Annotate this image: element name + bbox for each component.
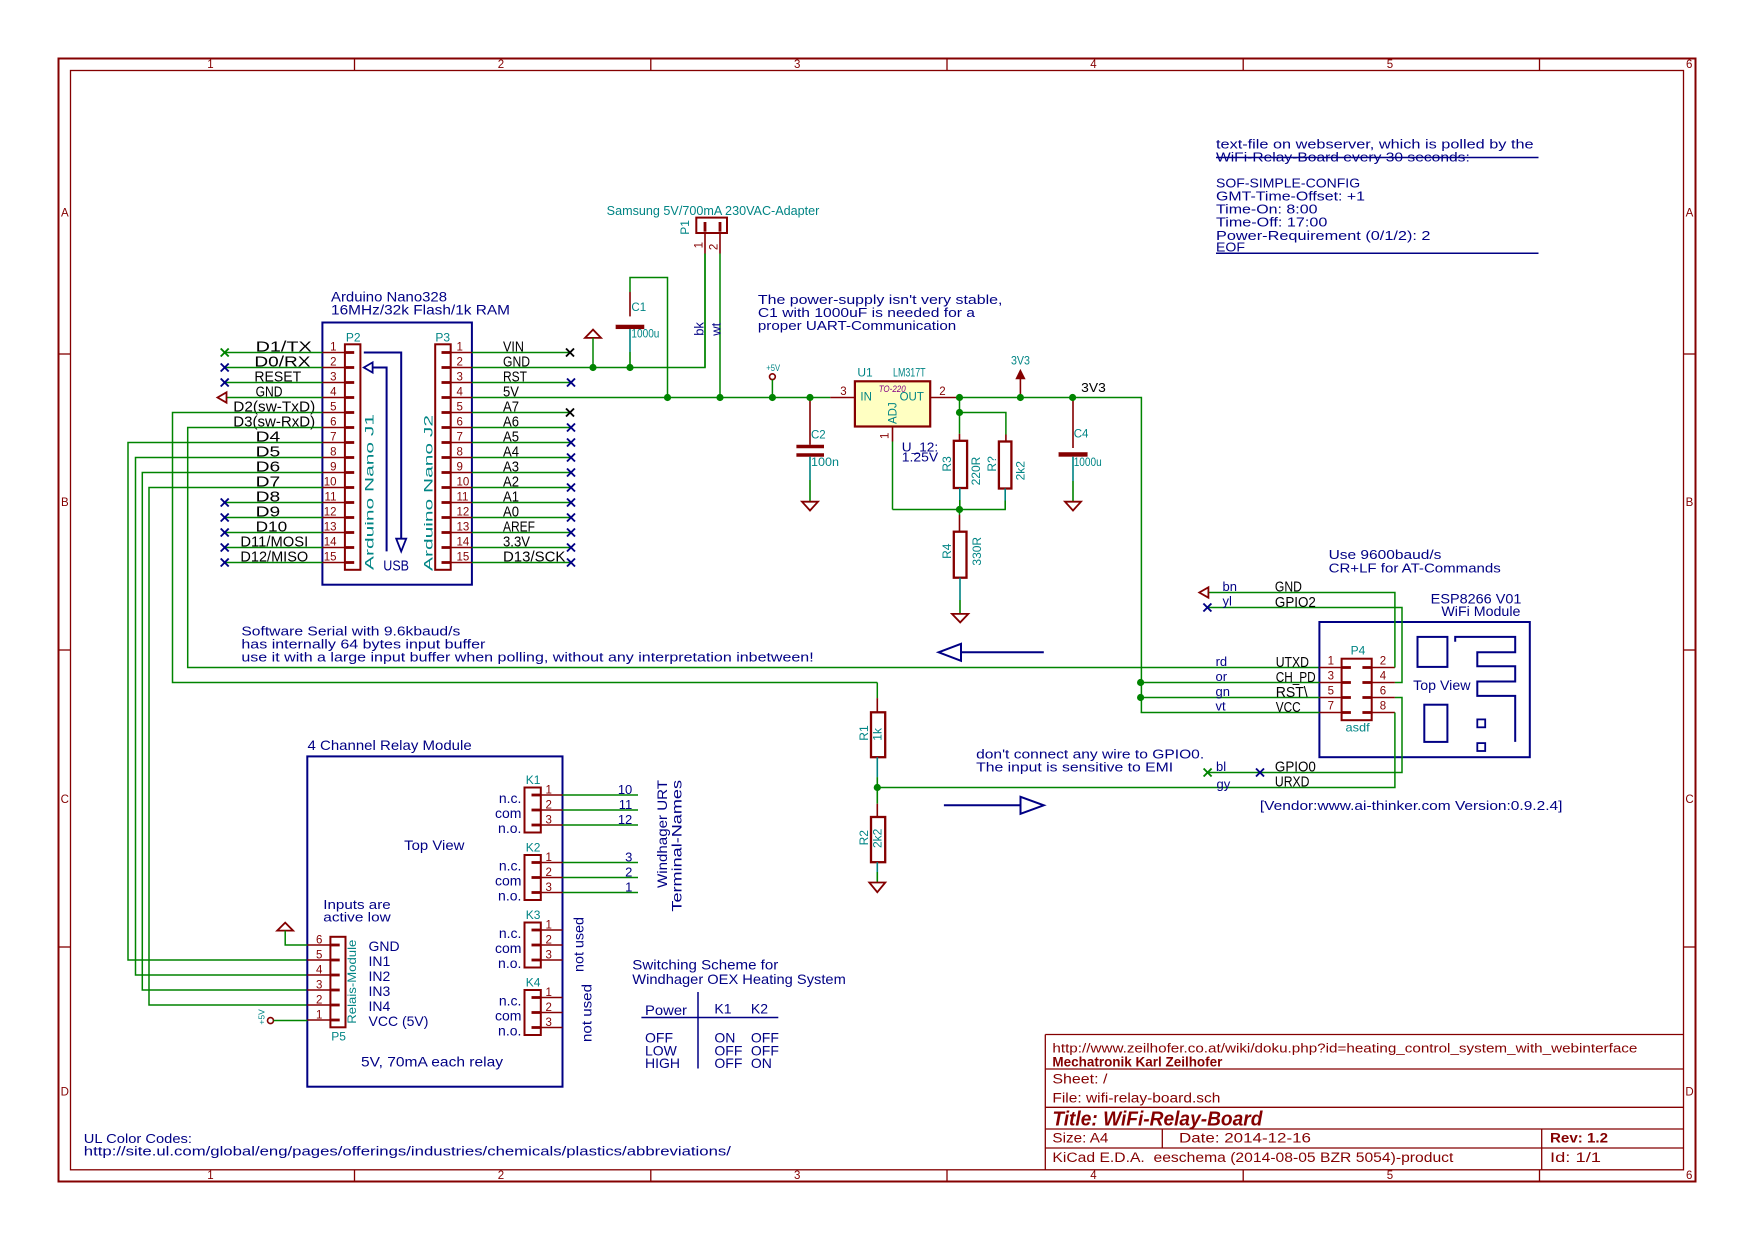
svg-text:LM317T: LM317T: [893, 366, 926, 380]
svg-text:bk: bk: [692, 322, 707, 336]
svg-text:ON: ON: [751, 1055, 772, 1071]
svg-text:4: 4: [1380, 671, 1387, 683]
svg-text:2: 2: [625, 865, 632, 880]
svg-text:7: 7: [1328, 701, 1334, 713]
svg-text:IN3: IN3: [369, 983, 391, 999]
svg-text:Power: Power: [645, 1002, 687, 1018]
svg-text:Date: 2014-12-16: Date: 2014-12-16: [1179, 1131, 1311, 1146]
svg-text:9: 9: [457, 462, 463, 474]
svg-text:asdf: asdf: [1346, 721, 1371, 735]
svg-text:not used: not used: [580, 984, 595, 1042]
svg-text:Title: WiFi-Relay-Board: Title: WiFi-Relay-Board: [1052, 1109, 1263, 1131]
svg-text:1k: 1k: [871, 727, 885, 741]
svg-text:com: com: [495, 940, 521, 956]
svg-text:15: 15: [324, 552, 337, 564]
svg-text:1: 1: [457, 342, 463, 354]
svg-text:5V, 70mA each relay: 5V, 70mA each relay: [361, 1054, 503, 1070]
svg-text:5: 5: [1387, 59, 1393, 71]
svg-text:K1: K1: [526, 773, 541, 787]
svg-text:5: 5: [1328, 686, 1334, 698]
svg-text:P5: P5: [331, 1030, 346, 1044]
svg-text:C: C: [1685, 794, 1693, 806]
svg-text:bl: bl: [1216, 759, 1226, 774]
svg-text:4 Channel Relay Module: 4 Channel Relay Module: [308, 737, 472, 753]
svg-text:7: 7: [330, 432, 336, 444]
svg-text:3: 3: [794, 59, 800, 71]
svg-text:P2: P2: [346, 331, 361, 345]
svg-text:330R: 330R: [970, 537, 984, 566]
svg-text:IN: IN: [860, 391, 872, 403]
svg-text:2: 2: [498, 59, 504, 71]
svg-text:3: 3: [546, 950, 552, 962]
svg-text:100n: 100n: [811, 457, 839, 469]
svg-text:A: A: [61, 207, 69, 219]
svg-text:11: 11: [325, 492, 337, 504]
svg-text:8: 8: [1380, 701, 1386, 713]
svg-text:1.25V: 1.25V: [902, 450, 939, 465]
svg-text:VCC (5V): VCC (5V): [369, 1013, 429, 1029]
svg-text:+5V: +5V: [257, 1009, 267, 1025]
svg-text:8: 8: [457, 447, 463, 459]
svg-text:CR+LF for AT-Commands: CR+LF for AT-Commands: [1329, 561, 1502, 576]
svg-text:K3: K3: [526, 908, 541, 922]
svg-text:wt: wt: [709, 322, 724, 336]
svg-text:B: B: [61, 497, 69, 509]
svg-text:n.o.: n.o.: [498, 888, 521, 904]
svg-text:GND: GND: [369, 938, 400, 954]
svg-text:WiFi Module: WiFi Module: [1441, 603, 1520, 619]
svg-text:OUT: OUT: [900, 391, 924, 403]
svg-text:Mechatronik Karl Zeilhofer: Mechatronik Karl Zeilhofer: [1052, 1055, 1223, 1070]
svg-text:13: 13: [324, 522, 337, 534]
svg-text:Size: A4: Size: A4: [1052, 1131, 1109, 1146]
svg-text:K2: K2: [526, 841, 541, 855]
svg-text:1: 1: [880, 433, 892, 439]
svg-text:not used: not used: [572, 917, 587, 972]
svg-text:EOF: EOF: [1216, 240, 1245, 255]
svg-text:3: 3: [546, 1017, 552, 1029]
svg-text:A: A: [1686, 207, 1694, 219]
svg-text:rd: rd: [1216, 654, 1228, 669]
svg-text:R4: R4: [940, 543, 954, 559]
svg-text:Windhager URT: Windhager URT: [655, 780, 670, 888]
svg-text:http://www.zeilhofer.co.at/wik: http://www.zeilhofer.co.at/wiki/doku.php…: [1052, 1041, 1637, 1056]
svg-text:C4: C4: [1074, 429, 1089, 441]
svg-text:Top View: Top View: [1413, 677, 1471, 693]
svg-text:Id: 1/1: Id: 1/1: [1550, 1150, 1601, 1165]
svg-text:active low: active low: [323, 910, 391, 925]
svg-text:8: 8: [330, 447, 336, 459]
svg-text:4: 4: [1090, 59, 1097, 71]
svg-text:IN2: IN2: [369, 968, 391, 984]
svg-text:15: 15: [457, 552, 470, 564]
svg-text:P3: P3: [435, 331, 450, 345]
svg-text:C2: C2: [811, 430, 826, 442]
svg-text:2: 2: [457, 357, 463, 369]
svg-text:2: 2: [709, 244, 721, 250]
svg-text:n.o.: n.o.: [498, 955, 521, 971]
svg-text:1000u: 1000u: [631, 329, 659, 341]
svg-text:2: 2: [546, 800, 552, 812]
svg-text:1: 1: [546, 852, 552, 864]
svg-text:n.o.: n.o.: [498, 820, 521, 836]
svg-text:6: 6: [1686, 1170, 1692, 1182]
svg-text:proper UART-Communication: proper UART-Communication: [758, 318, 956, 333]
svg-text:USB: USB: [383, 559, 409, 575]
svg-text:+5V: +5V: [766, 363, 780, 374]
svg-text:14: 14: [324, 537, 337, 549]
svg-text:13: 13: [457, 522, 470, 534]
svg-text:HIGH: HIGH: [645, 1055, 680, 1071]
svg-text:GND: GND: [1275, 579, 1302, 596]
svg-text:Rev: 1.2: Rev: 1.2: [1550, 1131, 1608, 1146]
svg-text:http://site.ul.com/global/eng/: http://site.ul.com/global/eng/pages/offe…: [84, 1144, 732, 1159]
svg-text:com: com: [495, 1008, 521, 1024]
svg-text:2k2: 2k2: [871, 828, 885, 848]
svg-text:use it with a large input buff: use it with a large input buffer when po…: [241, 650, 813, 665]
svg-text:1: 1: [546, 920, 552, 932]
svg-text:Windhager OEX Heating System: Windhager OEX Heating System: [632, 971, 846, 987]
svg-text:1: 1: [207, 1170, 213, 1182]
svg-text:P4: P4: [1351, 644, 1366, 658]
svg-text:com: com: [495, 873, 521, 889]
svg-text:K1: K1: [714, 1001, 731, 1017]
svg-text:KiCad E.D.A. eeschema (2014-0: KiCad E.D.A. eeschema (2014-08-05 BZR 50…: [1052, 1150, 1453, 1165]
svg-text:1: 1: [694, 242, 706, 248]
svg-text:Relais-Module: Relais-Module: [345, 939, 359, 1023]
svg-text:10: 10: [457, 477, 470, 489]
svg-text:n.c.: n.c.: [499, 925, 522, 941]
svg-text:220R: 220R: [969, 456, 983, 485]
svg-text:P1: P1: [678, 220, 692, 235]
svg-text:11: 11: [457, 492, 469, 504]
svg-text:or: or: [1216, 669, 1228, 684]
svg-text:12: 12: [618, 812, 632, 827]
svg-text:3: 3: [330, 372, 336, 384]
svg-text:R1: R1: [857, 725, 871, 741]
svg-text:3: 3: [546, 882, 552, 894]
svg-text:6: 6: [316, 935, 322, 947]
svg-text:5: 5: [457, 402, 463, 414]
svg-text:12: 12: [324, 507, 337, 519]
svg-text:yl: yl: [1223, 594, 1233, 609]
svg-text:4: 4: [1090, 1170, 1097, 1182]
svg-text:n.c.: n.c.: [499, 790, 522, 806]
svg-text:11: 11: [619, 797, 633, 812]
svg-text:6: 6: [457, 417, 463, 429]
svg-text:ADJ: ADJ: [888, 402, 900, 424]
svg-text:Top View: Top View: [404, 837, 465, 853]
svg-text:1: 1: [546, 987, 552, 999]
svg-text:7: 7: [457, 432, 463, 444]
svg-text:GPIO2: GPIO2: [1275, 594, 1316, 611]
svg-text:n.o.: n.o.: [498, 1023, 521, 1039]
svg-text:1: 1: [316, 1010, 322, 1022]
svg-text:1: 1: [546, 785, 552, 797]
svg-text:4: 4: [330, 387, 337, 399]
svg-text:12: 12: [457, 507, 470, 519]
svg-text:D: D: [1685, 1086, 1693, 1098]
svg-text:10: 10: [618, 782, 632, 797]
svg-text:2: 2: [546, 1002, 552, 1014]
svg-text:5: 5: [316, 950, 322, 962]
svg-text:Arduino Nano J1: Arduino Nano J1: [363, 413, 377, 570]
svg-text:4: 4: [316, 965, 323, 977]
svg-text:[Vendor:www.ai-thinker.com Ver: [Vendor:www.ai-thinker.com Version:0.9.2…: [1260, 798, 1563, 813]
svg-text:Arduino Nano J2: Arduino Nano J2: [422, 414, 436, 571]
svg-text:4: 4: [457, 387, 464, 399]
svg-text:2: 2: [330, 357, 336, 369]
svg-text:U1: U1: [857, 366, 873, 380]
svg-text:2: 2: [546, 935, 552, 947]
svg-text:K4: K4: [526, 976, 541, 990]
svg-text:10: 10: [324, 477, 337, 489]
svg-text:vt: vt: [1216, 699, 1227, 714]
svg-text:1: 1: [207, 59, 213, 71]
svg-text:3: 3: [316, 980, 322, 992]
svg-text:Terminal-Names: Terminal-Names: [670, 780, 685, 912]
svg-text:3: 3: [457, 372, 463, 384]
svg-text:URXD: URXD: [1275, 774, 1310, 791]
svg-text:D: D: [61, 1086, 69, 1098]
svg-text:n.c.: n.c.: [499, 858, 522, 874]
svg-text:C: C: [61, 794, 69, 806]
svg-text:5: 5: [330, 402, 336, 414]
svg-text:R?: R?: [985, 456, 999, 472]
svg-text:3: 3: [1328, 671, 1334, 683]
svg-text:3: 3: [625, 850, 632, 865]
svg-text:C1: C1: [631, 302, 646, 314]
svg-text:R3: R3: [940, 456, 954, 472]
svg-text:The input is sensitive to EMI: The input is sensitive to EMI: [976, 760, 1173, 775]
svg-text:gn: gn: [1216, 684, 1230, 699]
svg-text:IN4: IN4: [369, 998, 391, 1014]
svg-text:6: 6: [330, 417, 336, 429]
svg-text:9: 9: [330, 462, 336, 474]
svg-text:1: 1: [1328, 656, 1334, 668]
svg-text:5: 5: [1387, 1170, 1393, 1182]
svg-text:6: 6: [1686, 59, 1692, 71]
svg-text:3V3: 3V3: [1011, 356, 1030, 368]
svg-text:3: 3: [794, 1170, 800, 1182]
svg-text:3V3: 3V3: [1081, 381, 1106, 395]
svg-text:Samsung 5V/700mA 230VAC-Adapte: Samsung 5V/700mA 230VAC-Adapter: [607, 204, 820, 218]
svg-text:3: 3: [840, 386, 846, 398]
svg-text:16MHz/32k Flash/1k RAM: 16MHz/32k Flash/1k RAM: [331, 302, 510, 318]
svg-text:2: 2: [1380, 656, 1386, 668]
svg-text:1000u: 1000u: [1074, 457, 1102, 469]
svg-text:14: 14: [457, 537, 470, 549]
svg-text:n.c.: n.c.: [499, 993, 522, 1009]
svg-text:OFF: OFF: [714, 1055, 742, 1071]
svg-text:gy: gy: [1217, 777, 1231, 792]
svg-text:B: B: [1686, 497, 1694, 509]
svg-text:2k2: 2k2: [1014, 461, 1028, 481]
svg-text:2: 2: [498, 1170, 504, 1182]
svg-text:Sheet: /: Sheet: /: [1052, 1072, 1107, 1087]
svg-text:2: 2: [939, 386, 945, 398]
svg-text:1: 1: [330, 342, 336, 354]
svg-text:bn: bn: [1223, 579, 1237, 594]
svg-text:2: 2: [316, 995, 322, 1007]
svg-text:6: 6: [1380, 686, 1386, 698]
svg-text:2: 2: [546, 867, 552, 879]
svg-text:Power-Requirement (0/1/2): 2: Power-Requirement (0/1/2): 2: [1216, 228, 1431, 243]
svg-text:K2: K2: [751, 1001, 768, 1017]
svg-text:File: wifi-relay-board.sch: File: wifi-relay-board.sch: [1052, 1091, 1220, 1106]
svg-text:com: com: [495, 805, 521, 821]
svg-text:R2: R2: [857, 830, 871, 846]
svg-text:1: 1: [625, 880, 632, 895]
svg-text:IN1: IN1: [369, 953, 391, 969]
svg-text:VCC: VCC: [1276, 699, 1301, 716]
svg-text:3: 3: [546, 815, 552, 827]
